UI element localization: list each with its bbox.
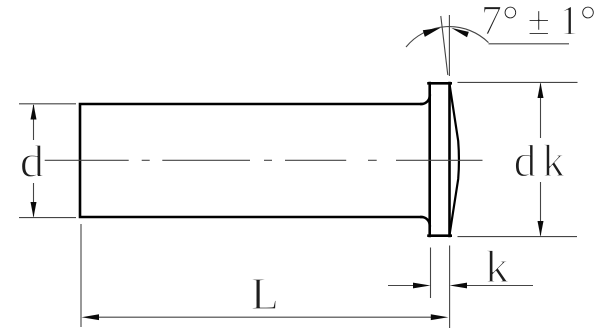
svg-text:dk: dk: [514, 136, 571, 186]
svg-text:d: d: [20, 136, 45, 186]
svg-text:7° ± 1°: 7° ± 1°: [481, 0, 596, 45]
svg-text:L: L: [251, 268, 279, 319]
svg-text:k: k: [485, 242, 510, 292]
